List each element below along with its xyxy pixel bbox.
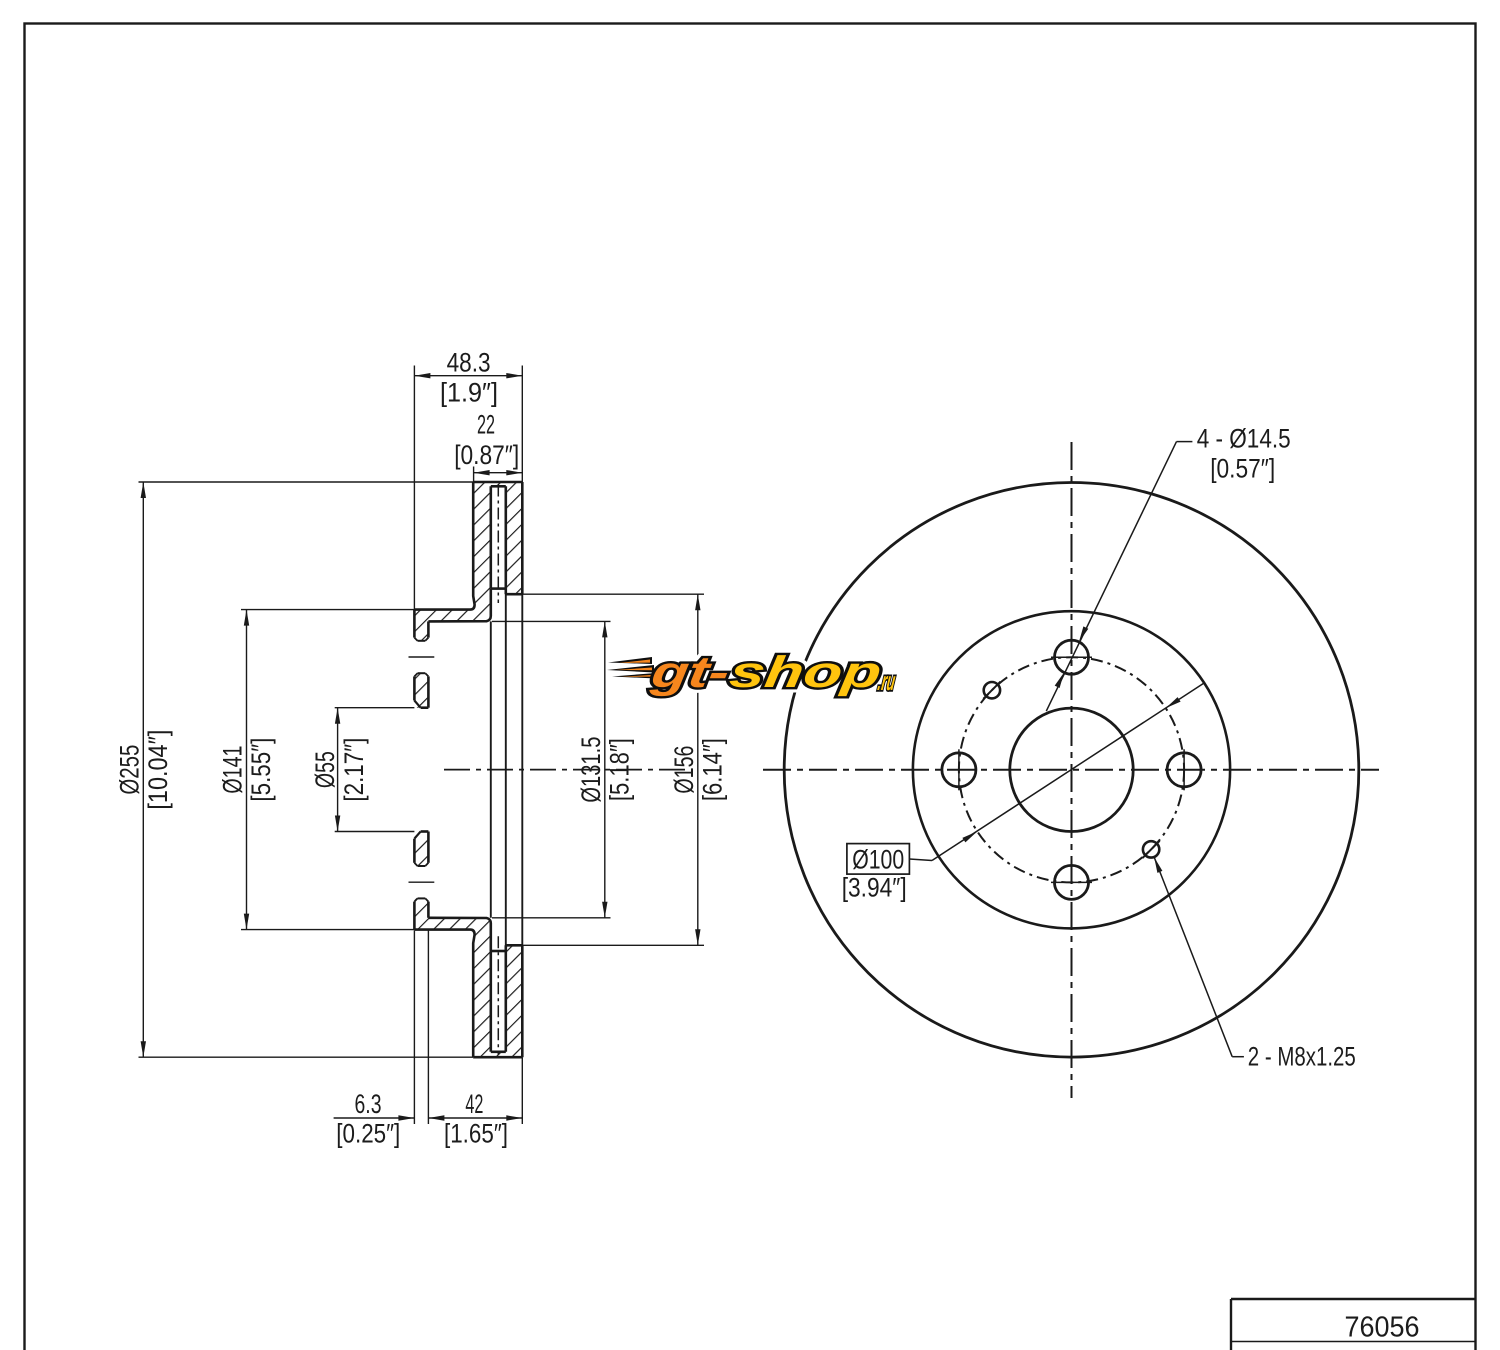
svg-text:Ø255: Ø255 (114, 745, 144, 795)
dimension D131.5 (492, 621, 634, 917)
disc outer circle (784, 483, 1359, 1058)
M8 service hole LR (1143, 841, 1160, 858)
svg-text:Ø100: Ø100 (852, 844, 904, 874)
hub flange faces and centre bore (414, 610, 428, 930)
svg-text:shop: shop (727, 648, 885, 697)
dimension 48.3 overall width (414, 348, 522, 610)
svg-text:[1.65″]: [1.65″] (444, 1119, 508, 1149)
dimension D141 (218, 610, 415, 930)
section axis centreline (444, 769, 693, 771)
title block (1231, 1299, 1476, 1350)
svg-text:Ø141: Ø141 (218, 746, 248, 794)
hub flange circle (913, 611, 1230, 928)
svg-text:[2.17″]: [2.17″] (339, 738, 369, 802)
dimension D255 (114, 482, 473, 1057)
section lower half hatched metal (413, 832, 522, 1058)
section outline upper half (414, 482, 522, 621)
part number 76056 (1345, 1312, 1420, 1344)
dimension D55 (310, 708, 414, 832)
svg-text:[3.94″]: [3.94″] (842, 873, 907, 903)
svg-text:Ø131.5: Ø131.5 (576, 737, 606, 803)
dimension 22 plate thickness (454, 409, 522, 482)
M8 service hole UL (983, 682, 1000, 699)
leader and label 4-D14.5 stud holes (1046, 423, 1290, 711)
svg-text:[10.04″]: [10.04″] (143, 730, 173, 810)
wheel stud hole N (1051, 640, 1092, 674)
svg-text:2 - M8x1.25: 2 - M8x1.25 (1248, 1042, 1356, 1072)
svg-text:Ø156: Ø156 (669, 746, 699, 794)
wheel stud hole E (1167, 749, 1201, 790)
svg-text:42: 42 (465, 1089, 483, 1119)
svg-text:[0.57″]: [0.57″] (1210, 453, 1275, 483)
svg-text:gt-: gt- (647, 648, 732, 697)
svg-text:[6.14″]: [6.14″] (697, 738, 727, 801)
svg-text:[5.18″]: [5.18″] (604, 738, 634, 801)
section outline lower half (414, 918, 522, 1057)
wheel stud hole S (1051, 865, 1092, 899)
dimension D156 (507, 594, 727, 945)
svg-text:Ø55: Ø55 (310, 751, 340, 788)
svg-text:48.3: 48.3 (447, 348, 491, 378)
svg-text:[0.25″]: [0.25″] (336, 1119, 400, 1149)
svg-text:4 - Ø14.5: 4 - Ø14.5 (1197, 423, 1291, 453)
front view vertical centreline (1071, 442, 1073, 1098)
svg-text:[0.87″]: [0.87″] (454, 440, 519, 470)
svg-text:6.3: 6.3 (355, 1089, 382, 1119)
svg-text:[1.9″]: [1.9″] (440, 378, 498, 408)
bolt circle (dashed) (959, 657, 1184, 882)
gt-shop.ru watermark logo (607, 648, 900, 697)
front view horizontal centreline (763, 769, 1379, 771)
dimension 42 hat depth (428, 1057, 522, 1148)
vent slot centrelines (497, 485, 499, 1056)
svg-text:76056: 76056 (1345, 1312, 1420, 1344)
dimension 6.3 flange thickness (334, 931, 429, 1149)
wheel-stud holes in flange (section) (409, 638, 435, 902)
leader and label D100 bolt circle (842, 683, 1204, 903)
leader and label 2-M8x1.25 service holes (1154, 857, 1356, 1072)
vent and face edges seen through hat opening (491, 589, 523, 951)
svg-text:22: 22 (477, 409, 495, 439)
svg-text:[5.55″]: [5.55″] (246, 738, 276, 802)
centre bore circle (1010, 708, 1133, 831)
wheel stud hole W (942, 749, 976, 790)
section upper half hatched metal (413, 482, 522, 708)
